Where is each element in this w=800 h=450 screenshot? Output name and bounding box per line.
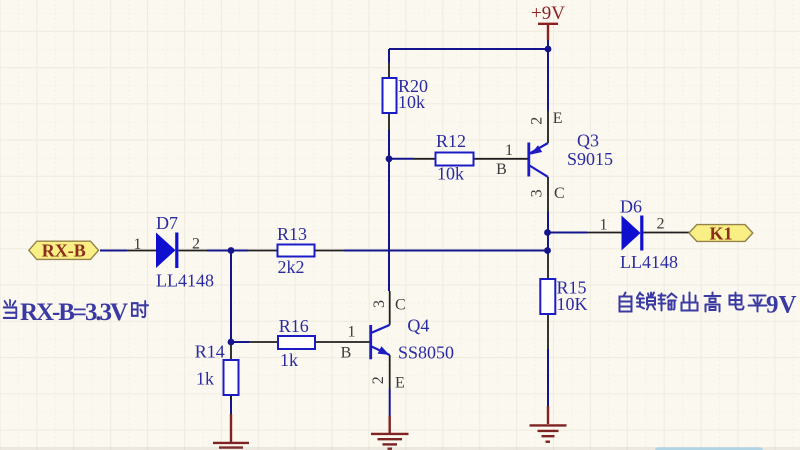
- svg-text:RX-B=3.3V: RX-B=3.3V: [20, 299, 128, 326]
- svg-text:1k: 1k: [196, 369, 214, 389]
- svg-text:K1: K1: [709, 223, 732, 243]
- svg-text:10K: 10K: [557, 294, 588, 314]
- svg-text:2k2: 2k2: [278, 257, 305, 277]
- svg-text:D6: D6: [620, 197, 642, 217]
- svg-text:S9015: S9015: [567, 149, 613, 169]
- svg-text:R14: R14: [195, 342, 225, 362]
- svg-text:+9V: +9V: [531, 3, 565, 24]
- svg-text:B: B: [341, 345, 352, 362]
- svg-text:10k: 10k: [437, 164, 464, 184]
- svg-text:LL4148: LL4148: [156, 271, 214, 291]
- svg-text:B: B: [496, 161, 507, 178]
- svg-text:2: 2: [192, 236, 200, 253]
- svg-text:C: C: [554, 185, 565, 202]
- svg-text:R16: R16: [279, 316, 309, 336]
- svg-text:C: C: [395, 297, 406, 314]
- svg-text:D7: D7: [156, 213, 178, 233]
- svg-text:1k: 1k: [280, 350, 298, 370]
- svg-text:SS8050: SS8050: [398, 343, 454, 363]
- svg-text:1: 1: [505, 142, 513, 159]
- svg-text:10k: 10k: [398, 92, 425, 112]
- svg-text:R12: R12: [436, 131, 466, 151]
- svg-text:2: 2: [529, 117, 546, 125]
- svg-text:Q3: Q3: [577, 131, 599, 151]
- svg-text:E: E: [553, 110, 563, 127]
- svg-text:RX-B: RX-B: [42, 240, 86, 260]
- svg-text:2: 2: [370, 376, 387, 384]
- svg-text:3: 3: [371, 300, 388, 308]
- svg-text:R13: R13: [277, 224, 307, 244]
- svg-text:Q4: Q4: [407, 316, 429, 336]
- svg-text:1: 1: [134, 236, 142, 253]
- svg-text:E: E: [395, 375, 405, 392]
- svg-text:3: 3: [529, 189, 546, 197]
- svg-text:1: 1: [600, 217, 608, 234]
- svg-text:2: 2: [657, 216, 665, 233]
- svg-text:LL4148: LL4148: [620, 252, 678, 272]
- svg-text:1: 1: [348, 324, 356, 341]
- svg-text:9V: 9V: [766, 292, 797, 319]
